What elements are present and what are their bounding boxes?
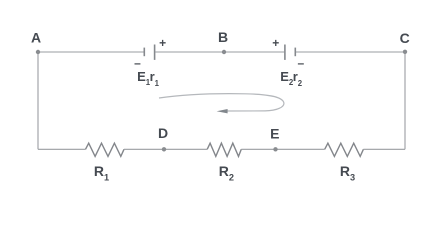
wire bottom-right bbox=[363, 148, 405, 150]
battery E1 positive plate (long) bbox=[154, 45, 156, 60]
svg-text:+: + bbox=[159, 36, 166, 50]
wire top-left: A to battery E1 negative plate bbox=[38, 51, 144, 53]
svg-text:R1: R1 bbox=[94, 163, 109, 182]
svg-text:–: – bbox=[134, 56, 141, 70]
node C bbox=[403, 50, 407, 54]
wire top-right: E2 to C bbox=[296, 51, 405, 53]
svg-text:R2: R2 bbox=[219, 163, 234, 182]
wire bottom E segment bbox=[241, 148, 324, 150]
battery E2 negative plate (short) bbox=[294, 48, 296, 57]
resistor R3 bbox=[325, 143, 364, 156]
wire right vertical bbox=[404, 52, 406, 149]
svg-text:E1r1: E1r1 bbox=[137, 69, 160, 88]
svg-text:E2r2: E2r2 bbox=[280, 69, 303, 88]
svg-text:C: C bbox=[400, 30, 410, 46]
wire left vertical bbox=[37, 52, 39, 149]
battery E2 positive plate (long) bbox=[284, 45, 286, 60]
wire bottom-left bbox=[38, 148, 86, 150]
loop direction arrow curve bbox=[159, 94, 284, 111]
svg-text:–: – bbox=[297, 56, 304, 70]
battery E1 negative plate (short) bbox=[143, 48, 145, 57]
node A bbox=[36, 50, 40, 54]
resistor R1 bbox=[86, 143, 125, 156]
wire top-middle: E1 to B to E2 bbox=[155, 51, 284, 53]
svg-text:E: E bbox=[270, 125, 279, 141]
svg-text:D: D bbox=[158, 125, 168, 141]
node E bbox=[273, 147, 277, 151]
node D bbox=[162, 147, 166, 151]
resistor R2 bbox=[207, 143, 241, 156]
svg-text:R3: R3 bbox=[340, 163, 355, 182]
node B bbox=[222, 50, 226, 54]
wire bottom D segment bbox=[124, 148, 207, 150]
svg-text:A: A bbox=[31, 30, 41, 46]
svg-text:+: + bbox=[272, 36, 279, 50]
svg-text:B: B bbox=[218, 29, 228, 45]
loop arrow head bbox=[217, 109, 228, 113]
